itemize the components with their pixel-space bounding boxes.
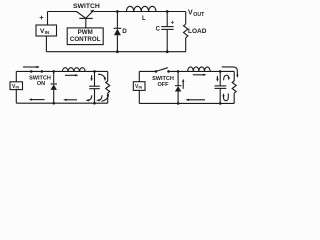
capacitor [94,71,96,86]
wire left riser top [138,71,140,81]
load resistor zigzag [184,24,188,38]
switch open contacts [155,70,158,73]
PWM control box [67,28,103,45]
wire top segment after switch [169,70,235,72]
node diode top dot [52,70,55,73]
wire left riser top [15,71,17,81]
svg-text:+: + [171,19,175,26]
label C [156,26,161,32]
svg-text:ON: ON [37,81,45,87]
switch SWITCH label [73,3,100,10]
svg-text:V: V [188,10,193,17]
current arrow curved right of capacitor [98,74,105,79]
svg-text:OUT: OUT [193,12,205,18]
capacitor C [166,12,168,27]
label LOAD [188,28,207,35]
svg-text:CONTROL: CONTROL [70,36,101,43]
diode [53,71,55,84]
current arrow down left of capacitor [216,76,218,80]
switch open blade [156,68,168,72]
node junction dot capacitor bottom [166,50,169,53]
switch closed contact dots [30,70,33,73]
wire switch drive to PWM [85,18,87,28]
svg-text:OFF: OFF [158,82,170,88]
diode [177,71,179,85]
node junction dot diode bottom [116,50,119,53]
node capacitor top dot [93,70,96,73]
current arrow J-curve left of cap bottom [88,95,92,100]
wire top segment [16,70,107,72]
svg-text:IN: IN [16,86,20,90]
inductor [62,68,85,72]
source VIN box [36,25,57,36]
label D [122,28,127,35]
current arrow J-curve right of cap bottom [98,95,102,100]
current arrow under inductor [65,74,77,76]
label VOUT [188,10,205,18]
wire top-right corner down [185,12,187,25]
current arrow outer arc over top-right corner [222,67,238,76]
source VIN box [133,82,145,91]
svg-text:SWITCH: SWITCH [73,3,100,10]
current arrow bottom wire left 1 [31,99,45,101]
wire left riser bottom [15,90,17,104]
wire bottom segment [139,102,234,104]
current arrow under inductor [193,74,205,76]
node diode bottom dot [52,102,55,105]
current arrow bottom wire left 2 [65,99,77,101]
node junction dot diode top [116,10,119,13]
svg-text:LOAD: LOAD [188,28,207,35]
load resistor zigzag right edge [107,71,109,81]
wire VIN top riser [47,12,49,26]
source VIN box [10,82,23,90]
label plus of C [171,19,175,26]
node diode bottom dot [177,102,180,105]
inductor [188,67,210,72]
current arrow n-arc right of capacitor [224,75,229,80]
wire VIN bottom riser [45,36,47,52]
diode D [116,12,118,29]
current arrow up right of diode [182,81,184,89]
switch symbol [77,12,86,19]
svg-text:L: L [142,16,146,22]
svg-text:PWM: PWM [78,29,93,36]
wire bottom segment [16,102,107,104]
wire top-left segment [48,11,77,13]
label SWITCH OFF [152,76,174,88]
wire top segment right of switch [94,11,186,13]
node capacitor bottom dot [219,102,222,105]
inductor L [126,6,156,11]
svg-text:IN: IN [45,30,50,35]
current arrow top wire right [23,66,38,68]
wire left riser bottom [138,90,140,103]
current arrow U-turn bottom right [224,94,229,101]
node capacitor bottom dot [93,102,96,105]
current arrow bottom wire left [187,99,205,101]
capacitor [219,71,221,86]
svg-text:+: + [39,13,44,22]
node VIN plus sign [39,13,44,22]
svg-text:C: C [156,26,161,32]
node junction dot capacitor top [166,10,169,13]
node capacitor top dot [219,70,222,73]
load resistor zigzag right edge [233,71,235,81]
wire top segment to switch [139,70,156,72]
node diode top dot [177,70,180,73]
current arrow hook near load bottom [102,96,109,102]
wire bottom segment [46,51,185,53]
svg-text:IN: IN [139,86,143,90]
svg-text:D: D [122,28,127,35]
label SWITCH ON [29,76,51,88]
label L [142,16,146,22]
current arrow down left of capacitor [91,75,93,79]
